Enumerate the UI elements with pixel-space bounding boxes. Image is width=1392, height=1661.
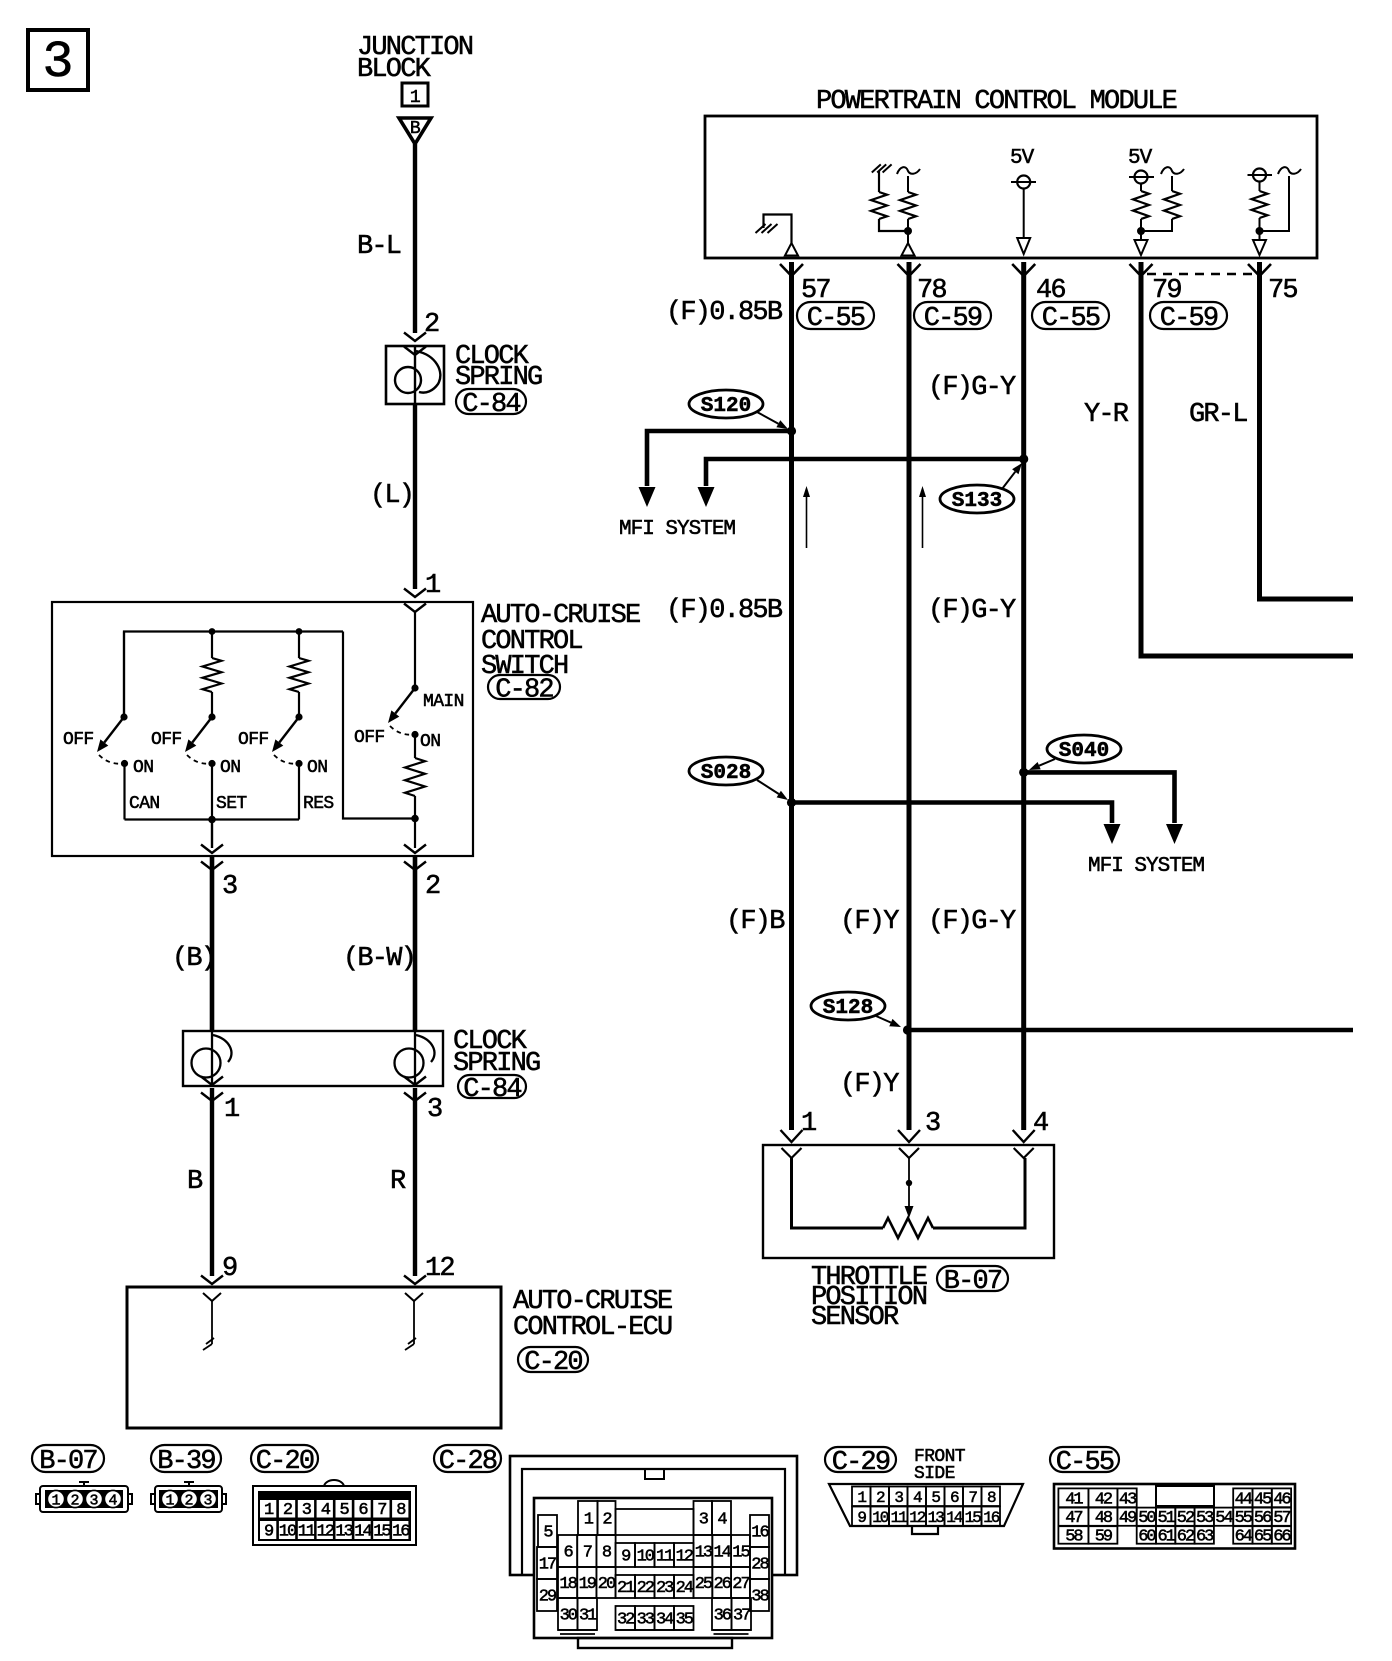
svg-text:1: 1 [51,1493,60,1510]
branch wire from S028 junction to MFI system [792,803,1121,845]
svg-text:(F)B: (F)B [726,907,785,937]
connector label B-07 bottom [32,1445,104,1477]
svg-text:BLOCK: BLOCK [357,55,432,85]
node S040 junction on wire 46 [1019,768,1028,777]
svg-text:ON: ON [220,758,240,778]
connector C-20 pin face [253,1480,416,1545]
MAIN switch ON terminal [411,731,440,752]
svg-text:1: 1 [224,1095,239,1125]
svg-text:15: 15 [965,1509,982,1527]
SET label [216,794,247,814]
PCM internal pull resistor pair at pin 78 [871,164,920,243]
svg-text:C-55: C-55 [1042,304,1100,334]
connector label C-29 bottom [825,1447,896,1478]
pin 2 of auto-cruise switch [404,845,440,903]
switch internal bottom bus wire [125,818,300,820]
wire label (B) [172,944,215,974]
svg-text:C-55: C-55 [807,304,865,334]
svg-text:34: 34 [656,1611,674,1630]
flow arrow on wire 78 [919,486,926,548]
svg-text:ON: ON [420,732,440,752]
flow arrow on wire 57 [803,486,810,548]
node at RES branch on top bus [296,628,303,635]
svg-text:61: 61 [1157,1528,1175,1547]
svg-text:1: 1 [801,1109,816,1139]
SET switch dashed throw to ON [187,755,211,764]
MAIN switch OFF label [354,728,385,748]
svg-text:14: 14 [354,1523,372,1542]
connector C-28 housing [510,1456,797,1575]
svg-text:25: 25 [695,1575,713,1594]
connector B-07 pin face [36,1482,132,1512]
svg-text:B-07: B-07 [944,1267,1002,1297]
SET switch OFF label [151,730,182,750]
wire label B [187,1167,203,1197]
PCM internal sensing circuit at pin 75 [1248,167,1302,240]
pin 9 of auto-cruise ECU [201,1254,237,1284]
wire label (L) [370,481,413,511]
svg-text:C-20: C-20 [256,1447,314,1477]
pin 1 of throttle position sensor [781,1109,817,1158]
auto-cruise control switch C-82 box [52,602,473,856]
svg-text:32: 32 [617,1611,634,1630]
svg-text:S120: S120 [701,395,751,418]
svg-text:31: 31 [579,1607,597,1626]
svg-text:28: 28 [751,1556,769,1575]
svg-text:59: 59 [1095,1528,1113,1547]
svg-text:MAIN: MAIN [423,692,464,712]
connector B-39 pin face [151,1482,226,1512]
svg-text:Y-R: Y-R [1084,400,1129,430]
MAIN label [423,692,464,712]
svg-text:C-28: C-28 [439,1447,497,1477]
svg-text:2: 2 [184,1493,193,1510]
wire label (F)0.85B upper [666,298,783,328]
pin 1 of auto-cruise control switch [404,571,440,612]
svg-text:9: 9 [222,1254,237,1284]
powertrain control module label [816,87,1177,117]
connector label B-07 at TPS [937,1266,1008,1297]
node MAIN output junction [411,815,419,823]
svg-text:43: 43 [1119,1490,1137,1509]
powertrain control module box [705,116,1317,258]
wire label (F)Y middle [840,907,899,937]
svg-text:23: 23 [656,1579,674,1598]
RES switch OFF label [238,730,269,750]
MAIN switch dashed throw to ON [390,726,414,735]
svg-text:11: 11 [656,1548,674,1567]
branch wire from S040 junction to MFI system [1024,772,1183,844]
MAIN switch blade [388,688,415,723]
svg-text:66: 66 [1273,1528,1291,1547]
svg-text:75: 75 [1268,276,1297,306]
splice S040 [1047,735,1121,763]
svg-text:(F)G-Y: (F)G-Y [928,596,1016,626]
node S120 junction on wire 57 [787,426,796,435]
wire label (F)G-Y upper [928,373,1016,403]
svg-text:OFF: OFF [151,730,182,750]
svg-text:(F)G-Y: (F)G-Y [928,907,1016,937]
svg-text:B-07: B-07 [39,1447,97,1477]
node SET output junction [208,816,216,824]
splice S120 [689,390,763,418]
svg-text:26: 26 [713,1575,731,1594]
pin 78 of PCM [898,264,947,306]
splice S028 [689,757,763,785]
junction block fuse 1 symbol [402,83,428,108]
node S128 junction on wire 78 [903,1025,912,1034]
connector label C-20 bottom [251,1445,318,1477]
svg-text:C-20: C-20 [524,1348,582,1378]
svg-text:S040: S040 [1059,740,1109,763]
clock spring lower left spiral [192,1031,232,1086]
svg-text:45: 45 [1254,1490,1272,1509]
svg-text:12: 12 [909,1509,926,1527]
svg-text:(F)0.85B: (F)0.85B [666,596,783,626]
node at SET branch on top bus [209,628,216,635]
arrow from S028 to junction [757,780,788,800]
PCM pin 57 body terminal triangle [785,243,798,256]
connector label C-55 bottom [1050,1447,1119,1478]
wire label B-L [357,232,401,262]
pin 1 of lower clock spring [201,1077,239,1126]
RES switch dashed throw to ON [274,755,298,764]
svg-text:58: 58 [1065,1528,1083,1547]
svg-text:64: 64 [1235,1528,1253,1547]
splice S133 [940,485,1014,513]
svg-text:2: 2 [602,1511,611,1530]
switch internal top bus wire [124,632,343,718]
svg-text:46: 46 [1273,1490,1291,1509]
wire Y-R from PCM pin 79 off to right [1141,262,1353,656]
svg-text:12: 12 [425,1254,454,1284]
auto-cruise control ECU C-20 box [127,1287,501,1428]
clock spring C-84 component box [386,346,444,404]
clock spring lower right spiral [395,1031,435,1086]
svg-text:C-59: C-59 [924,304,982,334]
connector label C-82 [488,675,560,706]
wire G-Y from PCM pin 78 to TPS pin 3 [907,262,912,1130]
svg-text:C-29: C-29 [832,1448,890,1478]
svg-text:12: 12 [676,1548,693,1567]
svg-text:19: 19 [579,1575,597,1594]
TPS potentiometer resistor [792,1158,1026,1238]
svg-text:(B-W): (B-W) [343,944,415,974]
svg-text:1: 1 [425,571,440,601]
svg-text:2: 2 [70,1493,79,1510]
connector C-55 pin face [1054,1484,1295,1549]
RES label [303,794,334,814]
svg-text:14: 14 [713,1544,731,1563]
svg-text:44: 44 [1235,1490,1253,1509]
junction block terminal B triangle [399,118,431,144]
svg-text:18: 18 [559,1575,577,1594]
svg-text:C-84: C-84 [463,1075,521,1105]
svg-text:49: 49 [1119,1509,1137,1528]
wire (B) from switch pin 3 to clock spring [210,856,215,1031]
svg-text:B: B [187,1167,203,1197]
PCM pin 75 output triangle [1253,240,1266,255]
svg-text:4: 4 [1033,1109,1048,1139]
svg-text:33: 33 [637,1611,655,1630]
svg-text:24: 24 [676,1579,694,1598]
svg-text:21: 21 [617,1579,635,1598]
connector label C-59 at pin 79 [1150,302,1227,334]
svg-text:S133: S133 [952,490,1002,513]
wire G-Y from PCM pin 46 to TPS pin 4 [1021,262,1026,1130]
MFI system label lower [1088,855,1204,878]
arrow from S128 to junction [876,1016,901,1027]
svg-text:65: 65 [1254,1528,1272,1547]
resistor in RES branch [290,632,309,721]
svg-text:17: 17 [539,1556,556,1575]
branch wire from S133 junction to MFI system [698,459,1024,507]
branch wire from S128 junction off to right [908,1028,1354,1033]
connector label C-28 bottom [434,1445,501,1477]
svg-text:15: 15 [373,1523,391,1542]
svg-text:OFF: OFF [63,730,94,750]
pin 79 of PCM [1130,264,1182,306]
pin 3 of throttle position sensor [898,1109,940,1158]
svg-text:C-59: C-59 [1160,304,1218,334]
wire (B-W) from switch pin 2 to clock spring [413,856,418,1031]
svg-text:38: 38 [751,1588,769,1607]
svg-text:MFI SYSTEM: MFI SYSTEM [1088,855,1204,878]
svg-text:10: 10 [872,1509,889,1527]
pin 3 of lower clock spring [404,1077,442,1126]
pin 12 of auto-cruise ECU [404,1254,454,1284]
svg-text:(L): (L) [370,481,413,511]
svg-text:(F)Y: (F)Y [840,1070,899,1100]
svg-text:27: 27 [732,1575,749,1594]
svg-text:B: B [410,119,421,139]
pin 3 of auto-cruise switch [201,845,237,903]
svg-text:37: 37 [733,1607,750,1626]
svg-text:42: 42 [1095,1490,1112,1509]
wire label (F)Y lower [840,1070,899,1100]
connector label C-84 lower [458,1075,526,1105]
pin 75 of PCM [1248,264,1297,306]
svg-text:3: 3 [42,33,73,92]
CAN switch OFF label [63,730,94,750]
SET switch ON terminal [208,758,240,778]
svg-text:15: 15 [732,1544,750,1563]
svg-text:14: 14 [946,1509,963,1527]
svg-text:RES: RES [303,794,334,814]
pin 4 of throttle position sensor [1013,1109,1048,1158]
dashed connector grouping line pins 79-75 [1147,273,1253,275]
TPS wiper wire [905,1158,914,1218]
wire label (F)G-Y middle [928,596,1016,626]
svg-text:3: 3 [925,1109,940,1139]
svg-text:36: 36 [714,1607,732,1626]
svg-text:C-84: C-84 [462,390,520,420]
svg-text:5V: 5V [1128,147,1153,170]
RES switch blade [272,717,299,752]
PCM pin 78 body terminal triangle [902,243,915,256]
svg-text:16: 16 [983,1509,1000,1527]
svg-text:63: 63 [1196,1528,1214,1547]
PCM pin 79 output triangle [1135,240,1148,255]
svg-text:2: 2 [424,310,439,340]
svg-text:5V: 5V [1010,147,1035,170]
svg-text:2: 2 [283,1501,292,1520]
svg-text:POWERTRAIN CONTROL MODULE: POWERTRAIN CONTROL MODULE [816,87,1177,117]
CAN switch dashed throw to ON [99,755,123,764]
CAN switch blade [97,717,124,752]
connector C-29 pin face [829,1484,1023,1534]
svg-text:11: 11 [298,1523,316,1542]
SET output wire to bottom bus [211,764,213,820]
connector C-28 pin face [534,1498,772,1648]
clock spring lower label [453,1027,540,1079]
svg-text:3: 3 [222,872,237,902]
pin 57 of PCM [780,264,830,306]
PCM internal ground at pin 57 [756,215,792,244]
svg-text:7: 7 [377,1501,386,1520]
svg-text:MFI SYSTEM: MFI SYSTEM [619,518,735,541]
svg-text:CAN: CAN [129,794,160,814]
svg-text:13: 13 [928,1509,945,1527]
throttle position sensor label [811,1263,927,1333]
PCM internal 5V supply with divider at pin 79 [1128,147,1184,240]
pin 2 of clock spring C-84 [404,310,439,355]
svg-text:54: 54 [1215,1509,1233,1528]
clock spring C-84 lower component box [183,1031,443,1086]
branch wire from S120 junction to MFI system [639,431,792,507]
splice S128 [811,992,885,1020]
clock spring C-84 spiral symbol [395,346,440,404]
wire label (F)0.85B middle [666,596,783,626]
svg-text:SIDE: SIDE [914,1464,955,1484]
resistor in SET branch [203,632,222,721]
svg-text:62: 62 [1177,1528,1194,1547]
svg-text:C-55: C-55 [1056,1448,1114,1478]
wire label GR-L [1189,400,1247,430]
wire label (F)B lower [726,907,785,937]
junction block label [357,33,473,85]
ECU internal terminal at pin 9 [203,1293,221,1350]
connector label C-84 upper [456,389,526,420]
svg-text:OFF: OFF [354,728,385,748]
CAN switch ON terminal [121,758,154,778]
svg-text:ON: ON [133,758,153,778]
throttle position sensor B-07 box [763,1145,1054,1258]
svg-text:3: 3 [427,1095,442,1125]
wire label (F)G-Y lower [928,907,1016,937]
PCM pin 46 output triangle [1017,238,1030,254]
wire B-L from junction block to clock spring pin 2 [413,144,417,333]
wire label Y-R [1084,400,1129,430]
svg-text:(F)Y: (F)Y [840,907,899,937]
svg-text:3: 3 [203,1493,212,1510]
svg-text:29: 29 [539,1588,557,1607]
svg-text:20: 20 [598,1575,616,1594]
svg-text:(B): (B) [172,944,215,974]
svg-text:2: 2 [425,872,440,902]
svg-text:ON: ON [307,758,327,778]
auto-cruise control ECU label [513,1287,672,1343]
svg-text:S128: S128 [823,997,873,1020]
wire R from clock spring to ECU pin 12 [413,1088,417,1276]
node S028 junction on wire 57 [787,798,796,807]
PCM internal 5V supply at pin 46 [1010,147,1036,238]
svg-text:13: 13 [695,1544,713,1563]
svg-text:GR-L: GR-L [1189,400,1247,430]
svg-text:10: 10 [279,1523,297,1542]
front side label [914,1447,966,1484]
connector label C-55 at pin 46 [1032,302,1109,334]
svg-text:13: 13 [335,1523,353,1542]
svg-text:3: 3 [89,1493,98,1510]
svg-text:1: 1 [165,1493,174,1510]
svg-text:10: 10 [637,1548,655,1567]
CAN switch pivot wire [120,632,127,721]
connector label C-59 at pin 78 [914,302,991,334]
svg-text:60: 60 [1138,1528,1156,1547]
wire L from clock spring to auto-cruise switch pin 1 [413,404,417,589]
svg-text:30: 30 [560,1607,578,1626]
wire label R [390,1167,406,1197]
svg-text:R: R [390,1167,406,1197]
svg-text:41: 41 [1065,1490,1083,1509]
CAN label [129,794,160,814]
arrow from S040 to junction [1029,759,1055,770]
svg-text:C-82: C-82 [495,676,553,706]
svg-text:(F)G-Y: (F)G-Y [928,373,1016,403]
page number box 3 [28,30,88,92]
wire B from clock spring to ECU pin 9 [210,1088,214,1276]
svg-text:B-L: B-L [357,232,401,262]
wire from bottom bus to pin 3 [211,820,213,849]
CAN output wire to bottom bus [123,764,125,820]
svg-text:OFF: OFF [238,730,269,750]
svg-text:B-39: B-39 [157,1447,215,1477]
RES output wire to bottom bus [298,764,300,820]
wire 0.85B from PCM pin 57 to TPS pin 1 [789,262,794,1130]
switch loop wire from top bus to MAIN output [343,632,415,819]
svg-text:SET: SET [216,794,247,814]
connector label C-55 at pin 57 [797,302,874,334]
svg-text:SENSOR: SENSOR [811,1303,899,1333]
SET switch blade [185,717,212,752]
svg-text:22: 22 [637,1579,654,1598]
svg-text:S028: S028 [701,762,751,785]
svg-text:CONTROL-ECU: CONTROL-ECU [513,1313,672,1343]
auto-cruise control switch label [481,601,640,682]
pin 46 of PCM [1012,264,1065,306]
svg-text:11: 11 [891,1509,908,1527]
svg-text:35: 35 [676,1611,694,1630]
resistor in MAIN branch [405,735,425,849]
MAIN switch input wire [411,612,418,692]
arrow from S120 to junction [757,412,788,429]
clock spring label [455,342,542,393]
ECU internal terminal at pin 12 [405,1293,423,1350]
svg-text:(F)0.85B: (F)0.85B [666,298,783,328]
node S133 junction on wire 46 [1019,454,1028,463]
connector label C-20 at ECU [518,1347,588,1378]
connector label B-39 bottom [151,1445,221,1477]
svg-text:1: 1 [410,88,420,108]
wire label (B-W) [343,944,415,974]
svg-text:16: 16 [392,1523,410,1542]
svg-text:12: 12 [317,1523,334,1542]
wire GR-L from PCM pin 75 off to right [1260,262,1354,599]
svg-text:16: 16 [751,1524,769,1543]
RES switch ON terminal [295,758,327,778]
arrow from S133 to junction [1002,463,1022,489]
